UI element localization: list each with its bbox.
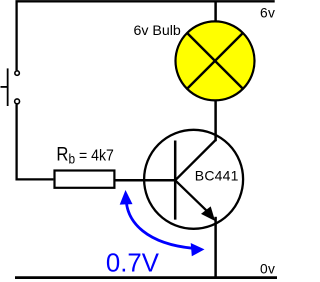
svg-text:6v Bulb: 6v Bulb xyxy=(134,23,181,39)
svg-text:BC441: BC441 xyxy=(195,167,239,183)
svg-text:0.7V: 0.7V xyxy=(106,249,160,277)
svg-text:6v: 6v xyxy=(260,6,275,21)
svg-text:Rb = 4k7: Rb = 4k7 xyxy=(56,143,113,167)
svg-text:0v: 0v xyxy=(260,262,275,277)
